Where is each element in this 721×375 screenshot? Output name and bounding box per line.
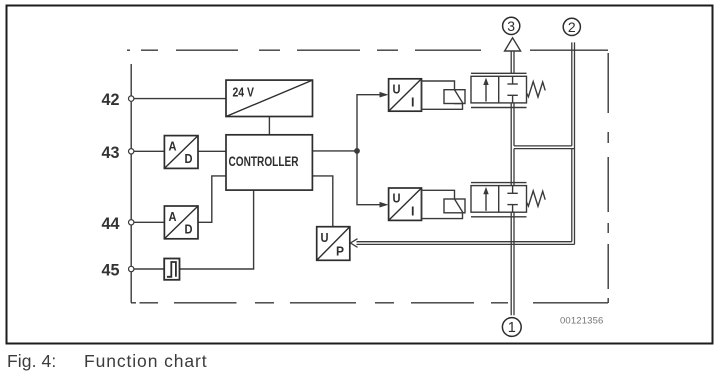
svg-text:A: A xyxy=(169,210,177,224)
wire A/D U2 to controller xyxy=(198,150,226,152)
svg-text:U: U xyxy=(393,192,401,206)
terminal node 43 xyxy=(129,149,134,154)
pipe pressure feedback to U/P xyxy=(357,242,575,245)
pipe port 3 vent line xyxy=(511,52,514,74)
arrowhead into U/I U5 xyxy=(380,202,389,208)
valve V1 spring xyxy=(527,82,546,97)
dashed enclosure bottom xyxy=(131,302,608,304)
wire 45 to pulse input xyxy=(131,268,164,270)
U/I converter U4 xyxy=(389,79,422,111)
wire junction to U/I U4 xyxy=(357,95,382,151)
solenoid coil valve V2 xyxy=(422,190,466,218)
node junction at controller output xyxy=(354,148,360,154)
terminal node 45 xyxy=(129,266,134,271)
wire 24V to controller xyxy=(268,117,270,135)
A/D converter U3 xyxy=(164,206,198,239)
svg-text:1: 1 xyxy=(508,320,516,336)
port 3 circled label xyxy=(503,17,520,34)
valve V1 flow arrow xyxy=(485,82,487,102)
solenoid coil valve V1 xyxy=(422,81,466,109)
svg-text:42: 42 xyxy=(102,90,120,109)
svg-text:Fig. 4:: Fig. 4: xyxy=(7,351,56,371)
wire A/D U3 to controller xyxy=(198,176,226,222)
svg-text:D: D xyxy=(185,152,193,166)
svg-text:U: U xyxy=(393,83,401,97)
pipe branch to port 2 xyxy=(514,146,575,149)
pulse input box pin 45 xyxy=(164,259,179,280)
svg-text:U: U xyxy=(321,231,329,245)
A/D converter U2 xyxy=(164,136,198,169)
terminal node 44 xyxy=(129,220,134,225)
svg-text:P: P xyxy=(336,244,344,258)
pipe port 2 line xyxy=(572,42,575,244)
wire 42 to 24V supply xyxy=(131,98,226,100)
valve V2 flow arrow xyxy=(485,191,487,211)
vent triangle port 3 xyxy=(505,38,521,51)
wire junction to U/I U5 xyxy=(357,151,382,205)
svg-text:2: 2 xyxy=(568,19,576,35)
wire controller output to junction xyxy=(312,150,357,152)
terminal node 42 xyxy=(129,96,134,101)
controller U1 xyxy=(226,135,312,190)
wire left terminal bus xyxy=(130,64,132,303)
wire 43 to A/D xyxy=(131,150,164,152)
valve V1 body xyxy=(471,73,545,107)
U/P converter U6 xyxy=(317,227,350,261)
power supply 24V box xyxy=(226,80,313,116)
svg-text:43: 43 xyxy=(102,143,120,162)
port 2 circled label xyxy=(563,18,580,35)
valve V2 blocked ports xyxy=(512,186,514,194)
port 1 circled label xyxy=(502,318,521,337)
dashed enclosure right xyxy=(607,53,609,303)
svg-text:Function chart: Function chart xyxy=(84,351,208,371)
svg-text:00121356: 00121356 xyxy=(560,315,603,326)
svg-text:A: A xyxy=(169,140,177,154)
svg-text:I: I xyxy=(411,96,414,110)
valve V2 body xyxy=(471,183,545,217)
svg-text:44: 44 xyxy=(102,214,121,233)
svg-text:D: D xyxy=(185,222,193,236)
svg-text:45: 45 xyxy=(102,261,120,280)
svg-text:3: 3 xyxy=(507,18,515,34)
svg-text:CONTROLLER: CONTROLLER xyxy=(229,154,299,169)
svg-text:I: I xyxy=(411,205,414,219)
arrowhead open into U/P xyxy=(351,239,358,248)
wire 44 to A/D xyxy=(131,221,164,223)
svg-text:24 V: 24 V xyxy=(233,85,255,100)
pipe between valves xyxy=(511,103,514,186)
dashed enclosure top xyxy=(127,49,608,51)
wire controller to U/P xyxy=(312,176,332,227)
valve V1 blocked ports xyxy=(512,76,514,84)
U/I converter U5 xyxy=(389,188,422,220)
arrowhead into U/I U4 xyxy=(380,92,389,98)
valve V2 spring xyxy=(527,191,546,206)
wire pulse input to controller xyxy=(180,190,254,269)
pipe port 1 supply line xyxy=(511,212,514,315)
